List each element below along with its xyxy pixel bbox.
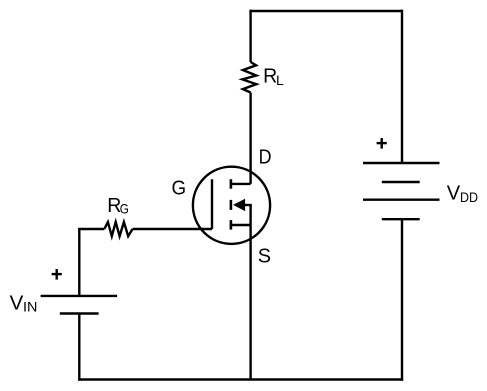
- plus sign VDD: [377, 138, 387, 149]
- resistor RL: [242, 62, 256, 93]
- svg-text:IN: IN: [23, 299, 37, 315]
- svg-text:S: S: [258, 245, 271, 268]
- mosfet Q1 channel bar source: [230, 220, 233, 230]
- wire right down to VDD plus plate: [401, 10, 403, 163]
- battery VDD plate 2 short: [382, 181, 420, 183]
- wire VIN plus: left riser from gate wire to VIN top plate: [78, 229, 80, 296]
- battery VDD plate 4 short (-): [382, 218, 420, 220]
- wire VDD minus plate down to bottom rail: [401, 219, 403, 381]
- mosfet Q1 channel bar body: [230, 200, 233, 210]
- mosfet Q1 gate bar: [211, 179, 213, 229]
- mosfet Q1 source stub: [231, 224, 251, 226]
- wire gate lead right of RG to gate bar: [133, 228, 213, 230]
- svg-text:G: G: [120, 201, 129, 217]
- battery VIN plate 1 long (+): [41, 295, 118, 297]
- mosfet Q1 drain stub: [231, 183, 251, 185]
- wire RL bottom to MOSFET drain stub: [249, 93, 251, 184]
- svg-text:DD: DD: [460, 189, 478, 205]
- svg-text:V: V: [447, 182, 461, 205]
- svg-text:V: V: [10, 291, 24, 314]
- svg-text:L: L: [276, 72, 284, 88]
- battery VDD plate 1 long (+): [363, 162, 440, 164]
- svg-text:G: G: [172, 177, 187, 200]
- wire gate lead left of RG: [78, 228, 104, 230]
- mosfet Q1 body stub: [244, 204, 252, 206]
- resistor RG: [104, 222, 132, 236]
- wire top-left: RL top up to top rail: [249, 10, 251, 62]
- battery VIN plate 2 short (-): [60, 312, 99, 314]
- mosfet Q1 body arrow: [233, 199, 245, 211]
- plus sign VIN: [52, 269, 62, 280]
- wire VIN minus down to bottom rail: [78, 314, 80, 381]
- mosfet Q1 body circle: [193, 167, 270, 244]
- battery VDD plate 3 long: [363, 198, 440, 200]
- wire top rail: [249, 10, 403, 12]
- svg-text:D: D: [259, 146, 272, 169]
- mosfet Q1 channel bar drain: [230, 179, 233, 189]
- wire source: MOSFET to bottom rail: [249, 205, 251, 380]
- wire bottom rail: [78, 378, 403, 380]
